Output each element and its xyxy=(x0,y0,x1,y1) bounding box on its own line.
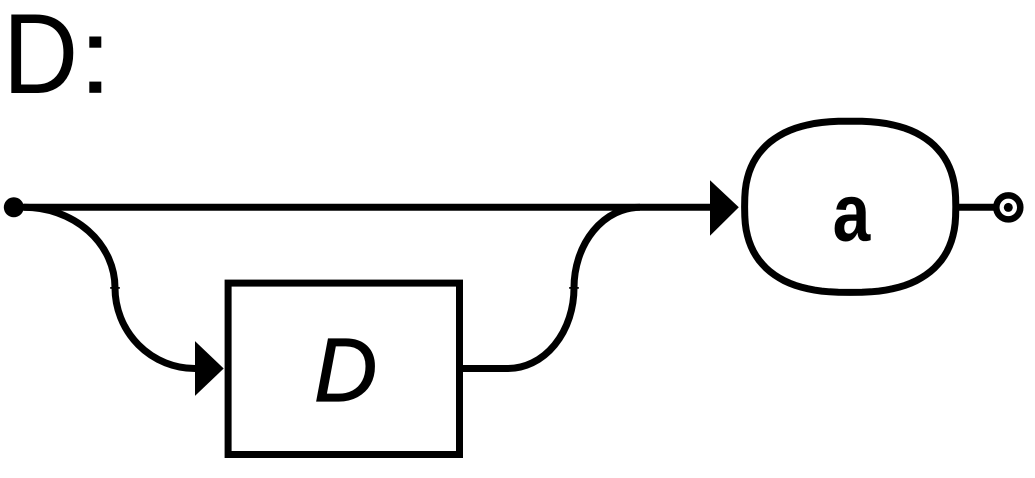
s-curve upper arc xyxy=(574,207,640,287)
branch arc lower left xyxy=(115,288,195,369)
title colon bottom dot xyxy=(89,82,101,93)
joint nub left branch xyxy=(110,287,120,289)
end bullseye inner dot xyxy=(1004,203,1013,212)
svg-text:a: a xyxy=(833,167,872,258)
nonterminal box D xyxy=(228,283,459,454)
svg-text:D: D xyxy=(3,0,79,118)
arrow into terminal a xyxy=(710,180,739,236)
wire bubble to end xyxy=(956,204,997,211)
arrow into nonterminal D xyxy=(195,341,224,396)
joint nub s-curve xyxy=(569,287,579,289)
end bullseye outer ring xyxy=(996,195,1020,219)
title colon top dot xyxy=(89,37,101,48)
svg-text:D: D xyxy=(314,320,377,420)
s-curve lower arc xyxy=(508,288,574,369)
main wire xyxy=(14,204,712,211)
terminal bubble a xyxy=(745,121,956,292)
stub box to s-curve xyxy=(463,365,509,372)
start dot xyxy=(4,197,24,217)
branch arc upper left xyxy=(24,207,115,287)
